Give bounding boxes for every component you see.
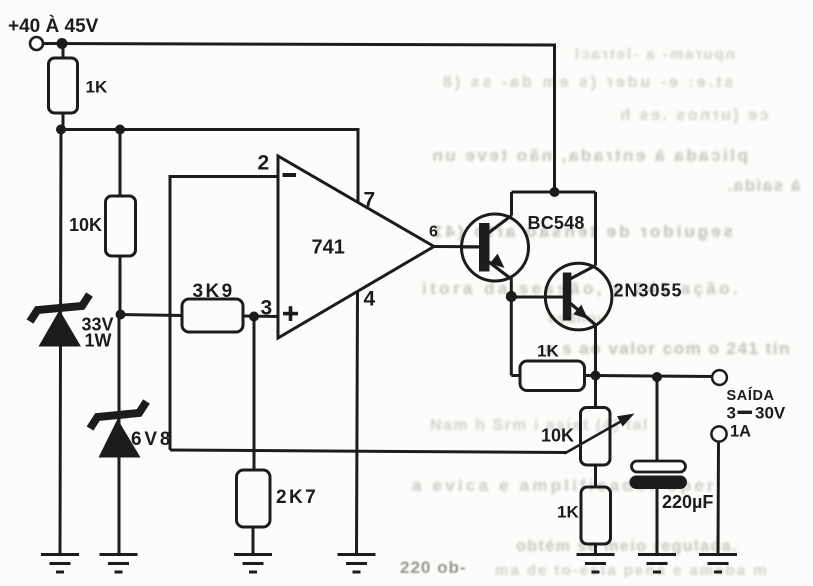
svg-text:1K: 1K (86, 78, 108, 97)
svg-text:6: 6 (429, 224, 438, 241)
svg-text:3: 3 (261, 297, 273, 320)
svg-text:+40 À 45V: +40 À 45V (8, 15, 99, 37)
svg-text:1K: 1K (557, 503, 579, 522)
svg-text:10K: 10K (541, 426, 574, 446)
svg-text:SAÍDA: SAÍDA (727, 387, 775, 404)
svg-text:30V: 30V (755, 404, 786, 423)
svg-text:741: 741 (312, 237, 345, 259)
svg-text:10K: 10K (69, 215, 102, 235)
svg-text:2N3055: 2N3055 (614, 281, 683, 301)
svg-text:2: 2 (258, 152, 270, 175)
svg-text:1A: 1A (730, 423, 751, 441)
svg-text:3K9: 3K9 (193, 281, 235, 302)
svg-text:2K7: 2K7 (276, 487, 318, 508)
svg-text:7: 7 (364, 189, 376, 212)
svg-text:BC548: BC548 (528, 213, 585, 233)
svg-text:220µF: 220µF (662, 492, 713, 512)
svg-text:4: 4 (364, 288, 376, 311)
svg-text:6V8: 6V8 (131, 429, 173, 450)
svg-text:1K: 1K (537, 342, 559, 361)
svg-text:1W: 1W (85, 331, 112, 351)
svg-text:3: 3 (727, 404, 736, 423)
